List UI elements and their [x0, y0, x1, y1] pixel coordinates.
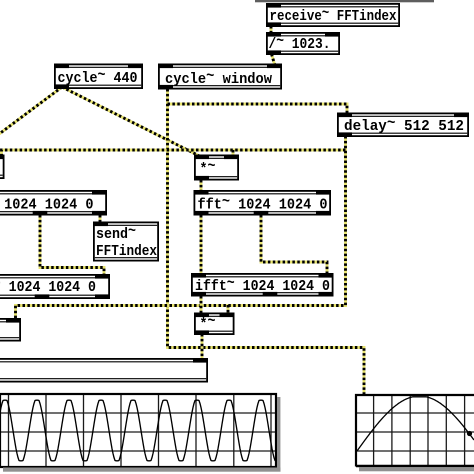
svg-text:cycle~ 440: cycle~ 440 [58, 67, 138, 87]
wire: left fft~ right outlet to send~ FFTindex [99, 215, 102, 223]
wire: cord cycle~ 440 to left *~ (clipped) [0, 87, 62, 152]
ifft U7b: clipped left ifft~ 1024 1024 0 [0, 275, 109, 298]
multiplier U8: clipped left *~ box [0, 319, 20, 341]
wire: cycle~ window trunk down and right to window scope [168, 89, 365, 396]
fft U5: object box fft~ 1024 1024 0 [194, 191, 330, 215]
scope display: window function curve [356, 395, 474, 471]
delay: object box delay~ 512 512 [338, 113, 468, 136]
svg-text:send~: send~ [96, 223, 136, 243]
oscillator: object box cycle~ window [159, 64, 281, 88]
wire: delay~ outlet across to upper *~ right inlets [2, 150, 346, 157]
wire: cycle~ window to delay~ inlet [168, 104, 348, 114]
wire: left fft~ middle outlet to left ifft~ right inlet [40, 215, 104, 275]
op-amp U2: object box /~ 1023. [267, 33, 339, 54]
ifft U7: object box ifft~ 1024 1024 0 [192, 274, 333, 296]
oscillator: object box cycle~ 440 [55, 64, 142, 88]
multiplier U4: clipped left *~ box [0, 155, 4, 178]
svg-text:ifft~ 1024 1024 0: ifft~ 1024 1024 0 [0, 276, 96, 296]
wire: cord receive~ to /~ [270, 26, 273, 34]
op-amp U1: object box receive~ FFTindex [267, 4, 399, 26]
node: clipped box bottom edge at top [255, 0, 434, 2]
wire: cord cycle~ 440 to *~ U3 left inlet [62, 87, 200, 156]
multiplier U3: object box *~ [195, 155, 238, 179]
wire: branch into *~ U6 right inlet [227, 305, 230, 314]
wire: cord /~ to cycle~ window right inlet [272, 54, 275, 64]
fft U5b: clipped left fft~ 1024 1024 0 [0, 191, 106, 215]
wire: *~ U3 to fft~ [200, 180, 203, 191]
wire: fft~ middle outlet to ifft~ right inlet [261, 215, 327, 274]
svg-text:receive~ FFTindex: receive~ FFTindex [270, 5, 397, 25]
svg-text:fft~ 1024 1024 0: fft~ 1024 1024 0 [0, 194, 94, 214]
wire: ifft~ outlet to *~ U6 [200, 296, 203, 314]
send box: send~ FFTindex [94, 222, 158, 260]
scope display: time-domain sine waveform [0, 394, 281, 472]
svg-text:delay~ 512 512: delay~ 512 512 [344, 115, 464, 135]
svg-text:cycle~ window: cycle~ window [165, 68, 272, 88]
wire: branch into *~ U3 right inlet [232, 150, 235, 156]
svg-text:FFTindex: FFTindex [96, 243, 157, 260]
wire: *~ U6 outlet to wide box inlet [201, 334, 204, 358]
wire: fft~ left outlet to ifft~ left inlet [200, 215, 203, 274]
node: wide empty object box [0, 359, 207, 382]
svg-text:fft~ 1024 1024 0: fft~ 1024 1024 0 [198, 194, 328, 214]
svg-text:ifft~ 1024 1024 0: ifft~ 1024 1024 0 [195, 275, 330, 295]
multiplier U6: object box *~ [195, 313, 234, 334]
svg-text:/~ 1023.: /~ 1023. [269, 33, 331, 53]
wire: delay~ outlet down to lower *~ right inlets [16, 136, 346, 320]
